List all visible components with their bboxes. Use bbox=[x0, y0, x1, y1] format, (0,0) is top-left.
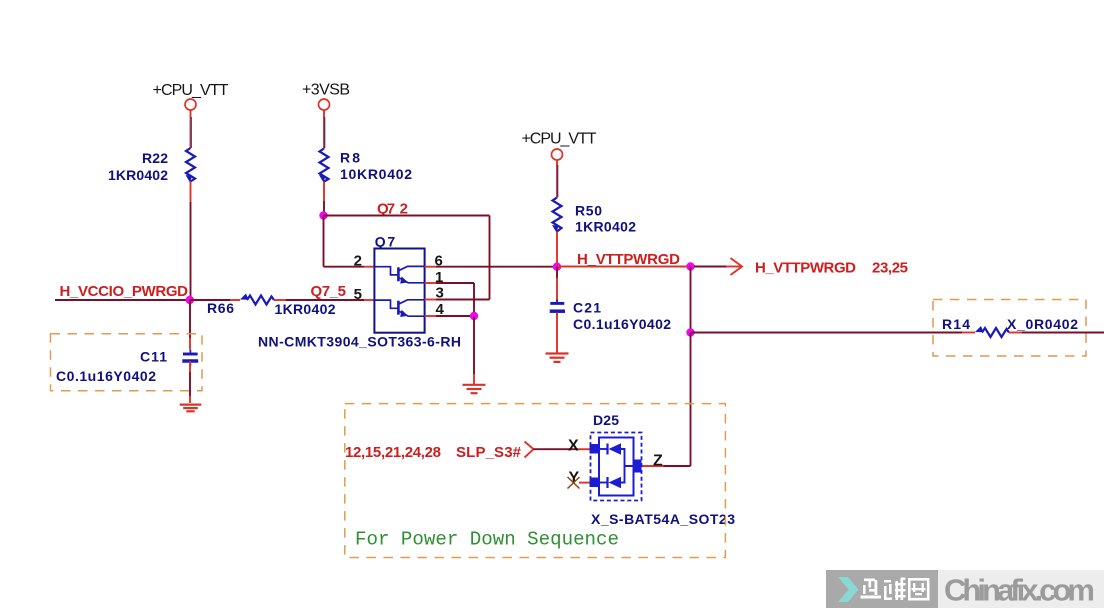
svg-text:C11: C11 bbox=[140, 349, 167, 365]
svg-text:1KR0402: 1KR0402 bbox=[108, 167, 168, 183]
diode D25 outer dashed box bbox=[591, 433, 642, 501]
no-connect X mark on Y pin bbox=[568, 477, 580, 489]
watermark chevron logo bbox=[838, 577, 859, 602]
wire SLP_S3# to X pin bbox=[534, 448, 591, 450]
wire power to R22 bbox=[190, 110, 192, 148]
svg-text:5: 5 bbox=[354, 286, 362, 303]
wire Y stub bbox=[579, 482, 591, 484]
power symbol +3VSB bbox=[302, 82, 350, 111]
wire node to C11 bbox=[189, 300, 191, 350]
wire node to R66 bbox=[190, 299, 240, 301]
svg-text:H_VCCIO_PWRGD: H_VCCIO_PWRGD bbox=[60, 283, 189, 300]
watermark chinese glyphs bbox=[861, 578, 930, 601]
transistor Q7 bottom NPN bbox=[374, 300, 424, 317]
watermark dark box bbox=[826, 570, 938, 608]
svg-text:R50: R50 bbox=[575, 203, 602, 219]
svg-text:For Power Down Sequence: For Power Down Sequence bbox=[355, 529, 619, 551]
svg-text:R66: R66 bbox=[207, 300, 234, 316]
svg-text:+3VSB: +3VSB bbox=[302, 82, 350, 99]
resistor R50 bbox=[552, 198, 636, 235]
wire power to R8 bbox=[323, 110, 325, 149]
diode D25 pin squares bbox=[590, 444, 642, 487]
svg-text:R8: R8 bbox=[340, 150, 360, 166]
svg-text:12,15,21,24,28: 12,15,21,24,28 bbox=[345, 444, 441, 461]
wire Q7_2 horizontal bbox=[324, 215, 490, 217]
resistor R14 bbox=[942, 316, 1078, 337]
watermark light box bbox=[938, 570, 1104, 608]
svg-text:Q7: Q7 bbox=[375, 234, 396, 250]
svg-text:10KR0402: 10KR0402 bbox=[340, 166, 412, 182]
svg-text:SLP_S3#: SLP_S3# bbox=[456, 444, 522, 461]
wire power to R50 bbox=[556, 160, 558, 198]
capacitor C11 bbox=[56, 349, 198, 385]
dashed box C11 bbox=[51, 334, 203, 391]
svg-text:X_S-BAT54A_SOT23: X_S-BAT54A_SOT23 bbox=[591, 511, 735, 527]
wire C21 to ground bbox=[556, 313, 558, 354]
wire pin3 to Q7_2 vertical bbox=[425, 299, 490, 301]
wire J6 to R14 bbox=[691, 332, 976, 334]
resistor R8 bbox=[319, 149, 412, 183]
wire H_VCCIO_PWRGD bbox=[55, 299, 190, 301]
power symbol +CPU_VTT right bbox=[522, 131, 597, 161]
diode D25 top diode bbox=[599, 443, 634, 466]
wire R50 to bus bbox=[556, 232, 558, 267]
port arrow H_VTTPWRGD bbox=[694, 258, 908, 277]
svg-text:H_VTTPWRGD: H_VTTPWRGD bbox=[577, 251, 680, 268]
ground under Q7 bbox=[463, 385, 486, 393]
wire pin1 down bbox=[425, 283, 474, 316]
diode D25 bottom diode bbox=[599, 466, 625, 488]
node junction J1 bbox=[186, 296, 194, 304]
node junction J2 bbox=[319, 211, 327, 219]
wire pin6 to bus bbox=[425, 266, 557, 268]
offpage connector SLP_S3# bbox=[525, 442, 534, 458]
svg-text:H_VTTPWRGD: H_VTTPWRGD bbox=[755, 260, 856, 277]
ground under C21 bbox=[546, 354, 569, 362]
wire Q7_2 vertical to pin3 bbox=[489, 216, 491, 300]
svg-text:+CPU_VTT: +CPU_VTT bbox=[153, 82, 229, 99]
svg-text:D25: D25 bbox=[593, 412, 619, 428]
svg-text:Chinafix.com: Chinafix.com bbox=[944, 573, 1095, 608]
wire R14 to right edge bbox=[1009, 332, 1104, 334]
wire pin4 bbox=[425, 315, 474, 317]
svg-text:X: X bbox=[568, 438, 579, 455]
svg-text:X_0R0402: X_0R0402 bbox=[1007, 316, 1078, 332]
dashed box power down sequence bbox=[345, 404, 726, 558]
svg-text:NN-CMKT3904_SOT363-6-RH: NN-CMKT3904_SOT363-6-RH bbox=[258, 334, 461, 350]
wire R22 to node bbox=[190, 182, 192, 301]
wire C11 to ground bbox=[189, 361, 191, 403]
resistor R22 bbox=[108, 148, 195, 183]
resistor R8 pin overlay bbox=[324, 117, 326, 148]
ground under C11 bbox=[180, 405, 202, 412]
resistor R50 pin overlay bbox=[557, 165, 559, 197]
resistor R22 pin overlay bbox=[190, 117, 192, 148]
svg-text:R22: R22 bbox=[142, 150, 168, 166]
svg-text:Z: Z bbox=[653, 453, 663, 470]
svg-text:1KR0402: 1KR0402 bbox=[575, 219, 636, 235]
wire bus J4 to J5 bbox=[557, 266, 691, 268]
power symbol +CPU_VTT left bbox=[153, 82, 229, 110]
node junction J4 bbox=[553, 263, 561, 271]
svg-text:23,25: 23,25 bbox=[872, 260, 908, 277]
svg-text:Q7_5: Q7_5 bbox=[311, 283, 347, 300]
wire J2 down to pin2 bbox=[324, 216, 375, 267]
svg-text:2: 2 bbox=[354, 253, 362, 270]
diode D25 inner box bbox=[599, 438, 634, 496]
svg-text:1KR0402: 1KR0402 bbox=[275, 301, 336, 317]
wire J6 down to D25 Z bbox=[690, 333, 692, 467]
wire J5 down to J6 bbox=[690, 267, 692, 333]
svg-text:C21: C21 bbox=[573, 300, 601, 316]
node junction J5 bbox=[686, 262, 694, 270]
svg-text:C0.1u16Y0402: C0.1u16Y0402 bbox=[56, 368, 156, 384]
wire R8 to node J2 bbox=[323, 182, 325, 216]
capacitor C21 bbox=[550, 300, 672, 333]
node junction J3 bbox=[470, 312, 478, 320]
svg-text:C0.1u16Y0402: C0.1u16Y0402 bbox=[573, 316, 671, 332]
wire C21 stub bbox=[556, 267, 558, 302]
transistor Q7 box bbox=[374, 234, 424, 333]
svg-text:+CPU_VTT: +CPU_VTT bbox=[522, 131, 597, 148]
node junction J6 bbox=[686, 328, 694, 336]
wire Z to vertical bbox=[642, 465, 691, 467]
resistor R66 bbox=[207, 294, 336, 318]
dashed box R14 bbox=[933, 300, 1086, 357]
svg-text:R14: R14 bbox=[942, 316, 970, 332]
transistor Q7 top NPN bbox=[374, 266, 424, 283]
wire J3 to ground bbox=[473, 316, 475, 385]
wire R66 to Q7 pin5 bbox=[274, 299, 374, 301]
